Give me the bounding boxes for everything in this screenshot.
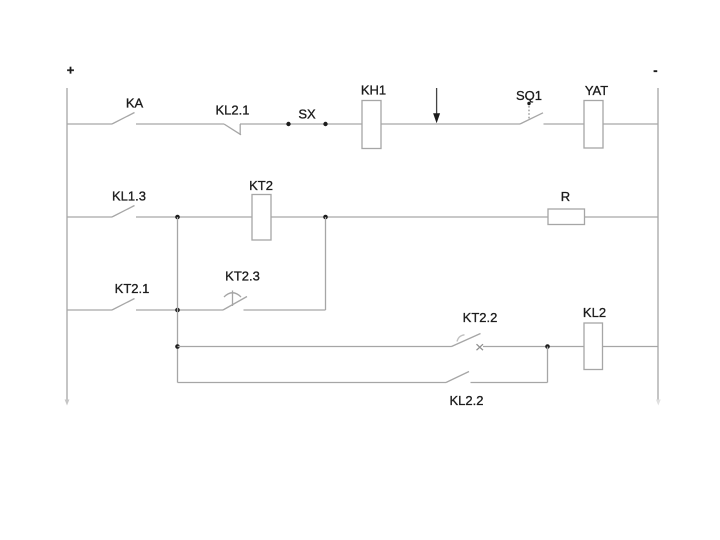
coil YAT xyxy=(584,83,608,148)
contact KL1.3 (NO) xyxy=(112,189,146,218)
wire KL2.2 to node E column xyxy=(471,382,548,384)
wire column B vertical (rung3 up to rung2) xyxy=(325,217,327,310)
svg-text:KL2: KL2 xyxy=(583,305,606,320)
svg-text:KA: KA xyxy=(126,96,144,111)
wire rung2 left rail to KL1.3 xyxy=(67,216,112,218)
node E (rung4 / KL2.2 branch) xyxy=(545,344,550,349)
svg-text:KT2.1: KT2.1 xyxy=(115,281,150,296)
wire KA to KL2.1 xyxy=(136,123,224,125)
node C (rung3 / branch column) xyxy=(175,308,180,313)
wire KL1.3 to KT2 xyxy=(136,216,252,218)
resistor R xyxy=(548,189,585,225)
svg-text:SX: SX xyxy=(298,107,316,122)
wire rung1 left rail to KA xyxy=(67,123,112,125)
wire YAT to right rail xyxy=(603,123,658,125)
wire KT2.3 to column B xyxy=(244,309,326,311)
right rail end tip xyxy=(656,400,661,406)
svg-text:KL2.2: KL2.2 xyxy=(450,393,484,408)
svg-text:R: R xyxy=(561,189,570,204)
svg-text:KH1: KH1 xyxy=(361,83,386,98)
time-delay contact KT2.3 xyxy=(223,269,260,311)
left rail end tip xyxy=(65,400,70,406)
contact KL2.2 (NO) xyxy=(446,372,483,409)
contact KT2.1 (NO) xyxy=(112,281,149,310)
connector SX terminal dots xyxy=(286,107,327,127)
contact KA (NO) xyxy=(112,96,143,125)
plus terminal xyxy=(67,63,75,78)
wire KT2 to R xyxy=(271,216,548,218)
node A (rung2 / branch column) xyxy=(175,215,180,220)
time-delay contact KT2.2 xyxy=(452,310,498,350)
thermal relay contact KH1 xyxy=(361,83,386,149)
coil KT2 xyxy=(249,178,273,240)
svg-text:KT2.2: KT2.2 xyxy=(463,310,498,325)
svg-text:SQ1: SQ1 xyxy=(516,88,542,103)
wire KT2.2 to KL2 xyxy=(483,346,584,348)
wire KL2 to right rail xyxy=(603,346,659,348)
wire rung4 column A to KT2.2 xyxy=(178,346,452,348)
wire rung5 up to node E xyxy=(547,347,549,383)
minus terminal xyxy=(653,63,657,78)
svg-text:+: + xyxy=(67,63,75,78)
wire column A vertical (rung2 down to rung5) xyxy=(177,217,179,383)
svg-text:KL2.1: KL2.1 xyxy=(216,103,250,118)
left rail wire (+) xyxy=(66,88,68,401)
svg-text:-: - xyxy=(653,63,657,78)
right rail wire (-) xyxy=(657,88,659,401)
svg-text:KT2: KT2 xyxy=(249,178,273,193)
wire R to right rail xyxy=(585,216,659,218)
coil KL2 xyxy=(583,305,606,370)
arrow marker (down onto rung 1) xyxy=(433,88,440,123)
wire SQ1 to YAT xyxy=(544,123,585,125)
node B (rung2 / KT2.3 column) xyxy=(323,215,328,220)
wire KL2.1 to KH1 xyxy=(240,123,362,125)
wire KH1 to SQ1 xyxy=(381,123,520,125)
contact KL2.1 (NC) xyxy=(216,103,250,135)
node D (rung4 / branch column) xyxy=(175,344,180,349)
wire KT2.1 to KT2.3 xyxy=(136,309,223,311)
svg-text:KT2.3: KT2.3 xyxy=(225,269,260,284)
limit switch SQ1 (NO) xyxy=(516,88,543,124)
wire rung5 column A to KL2.2 xyxy=(178,382,447,384)
svg-text:KL1.3: KL1.3 xyxy=(112,189,146,204)
svg-text:YAT: YAT xyxy=(585,83,608,98)
wire rung3 left rail to KT2.1 xyxy=(67,309,112,311)
